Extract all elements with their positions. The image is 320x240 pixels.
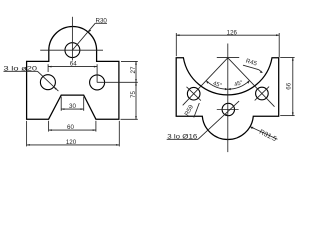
svg-text:R30: R30 [96, 18, 108, 25]
svg-text:30: 30 [69, 103, 76, 110]
svg-text:64: 64 [70, 61, 77, 68]
svg-text:3 lo Ø16: 3 lo Ø16 [167, 134, 198, 140]
svg-text:66: 66 [285, 82, 292, 89]
svg-text:75: 75 [130, 91, 137, 98]
svg-text:126: 126 [227, 29, 238, 36]
svg-text:120: 120 [66, 139, 77, 146]
svg-text:27: 27 [130, 66, 137, 73]
svg-text:60: 60 [67, 124, 74, 131]
svg-text:3 lo ø20: 3 lo ø20 [4, 66, 39, 72]
